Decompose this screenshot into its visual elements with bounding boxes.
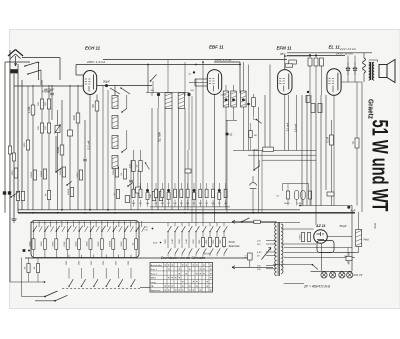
svg-text:Sperrkreis: Sperrkreis xyxy=(151,289,162,292)
AF subnetwork resistor 1 xyxy=(286,191,289,199)
svg-text:1500: 1500 xyxy=(24,142,26,148)
pushbutton column 5 xyxy=(78,221,80,226)
mains line bottom xyxy=(232,266,273,268)
AF subnetwork oval 2 xyxy=(301,191,305,200)
resistor 1500 left xyxy=(26,140,29,150)
svg-text:1M: 1M xyxy=(254,135,257,137)
svg-text:×: × xyxy=(192,288,194,292)
svg-text:50000: 50000 xyxy=(284,203,289,205)
capacitor 8uF xyxy=(347,206,350,209)
coupling caps left of EL xyxy=(306,96,310,103)
pushbutton column 1 xyxy=(33,221,35,226)
junction dots xyxy=(32,212,34,214)
power transformer secondary xyxy=(281,224,283,273)
svg-text:EBF 11: EBF 11 xyxy=(209,45,224,50)
wire right col x311 xyxy=(310,95,312,206)
pushbutton column 4 xyxy=(67,221,69,226)
svg-text:4700pF: 4700pF xyxy=(42,90,51,94)
svg-text:4 kΩ: 4 kΩ xyxy=(373,223,377,228)
svg-text:0,9 mA: 0,9 mA xyxy=(294,124,298,132)
mains line top xyxy=(232,221,277,223)
resistor input 3b xyxy=(47,123,50,133)
dial lamps xyxy=(321,272,327,278)
svg-text:0,1: 0,1 xyxy=(155,203,158,205)
antenna coupling box 700 xyxy=(10,69,18,73)
capacitor 0.1uF mains xyxy=(248,253,253,260)
pushbutton column 6 xyxy=(90,221,92,226)
svg-text:1,0M: 1,0M xyxy=(27,106,31,113)
svg-text:0,1M: 0,1M xyxy=(172,239,174,244)
svg-text:Lang: Lang xyxy=(151,282,157,284)
svg-text:250pF: 250pF xyxy=(221,95,228,97)
wire EFM cathode xyxy=(284,95,286,151)
wire ECH cathode xyxy=(89,95,91,210)
fuse xyxy=(254,220,260,223)
svg-text:ZF = 468/472 kHz: ZF = 468/472 kHz xyxy=(303,284,331,288)
svg-text:B´mst: B´mst xyxy=(204,253,211,256)
wire collect below unit dashed xyxy=(62,288,140,290)
capacitor dots EBF xyxy=(247,103,250,106)
svg-text:8µF: 8µF xyxy=(351,209,356,213)
pushbutton column 8 xyxy=(112,221,114,226)
svg-text:50: 50 xyxy=(91,104,95,108)
rectifier AZ11 xyxy=(314,230,328,244)
wire ECH anode xyxy=(75,65,77,76)
svg-text:0,1: 0,1 xyxy=(167,203,170,205)
svg-text:25nF: 25nF xyxy=(253,149,259,152)
svg-text:1000: 1000 xyxy=(41,241,43,247)
resistor 0.1M right xyxy=(330,135,334,145)
svg-text:0,1M: 0,1M xyxy=(186,239,188,244)
svg-text:×: × xyxy=(206,284,208,288)
switches below unit xyxy=(68,255,70,259)
left switch low xyxy=(10,196,12,198)
svg-text:×: × xyxy=(185,263,187,267)
AZ11 cathode loop xyxy=(317,241,334,253)
svg-text:10000: 10000 xyxy=(110,240,112,247)
svg-text:×: × xyxy=(164,288,166,292)
svg-text:×: × xyxy=(171,263,173,267)
svg-text:4,2V / 2,4 mA: 4,2V / 2,4 mA xyxy=(340,47,356,51)
wire left rail x22 xyxy=(21,80,23,210)
wire right col x302 xyxy=(301,95,303,206)
switch after ECH xyxy=(110,88,120,94)
component 1M right low xyxy=(327,192,334,196)
switch detector xyxy=(256,119,258,121)
svg-text:10000: 10000 xyxy=(68,188,70,195)
left bottom resistors xyxy=(27,264,30,273)
IF I coil B xyxy=(178,93,184,109)
svg-text:5000: 5000 xyxy=(299,234,301,240)
wire right col x307 xyxy=(306,95,308,206)
svg-text:EL 11: EL 11 xyxy=(329,45,341,50)
switch ECH grid xyxy=(120,87,122,89)
osc switch contacts xyxy=(121,111,123,113)
pushbutton column 7 xyxy=(101,221,103,226)
svg-text:245V; 36 mA: 245V; 36 mA xyxy=(335,51,353,55)
speaker xyxy=(379,65,387,78)
svg-text:×: × xyxy=(168,276,170,280)
wires into EBF left xyxy=(195,78,207,80)
trim capacitor xyxy=(68,130,73,136)
wire grid ECH xyxy=(14,85,84,87)
tube EL11 xyxy=(327,69,341,96)
wire left rail x14 xyxy=(13,74,15,215)
svg-text:5000: 5000 xyxy=(30,241,32,247)
wire IF can right feed xyxy=(184,62,186,93)
wire bus y210 xyxy=(18,209,300,211)
svg-text:5000: 5000 xyxy=(19,193,21,199)
hline y120 detector xyxy=(226,119,237,121)
svg-text:Graetz: Graetz xyxy=(367,99,376,119)
wire 240V drop x148 xyxy=(147,65,149,93)
switch TA xyxy=(253,169,255,171)
svg-text:1000: 1000 xyxy=(12,170,14,176)
svg-text:×: × xyxy=(189,267,191,271)
power transformer primary xyxy=(275,223,277,276)
switch bottom long 3 xyxy=(151,287,153,289)
IF I coil A xyxy=(165,93,172,109)
svg-text:50pF: 50pF xyxy=(103,79,110,83)
switch osc low xyxy=(145,162,146,163)
wire left rail x18 xyxy=(17,64,19,213)
resistor 70 right xyxy=(355,138,359,148)
svg-text:100: 100 xyxy=(72,115,76,120)
wire column x265 xyxy=(264,95,266,151)
svg-text:×: × xyxy=(175,288,177,292)
tube EFM11 xyxy=(278,70,292,95)
resistor input 2a xyxy=(40,99,43,109)
switch bottom long 2 xyxy=(35,300,55,302)
wire af line2 xyxy=(261,151,263,213)
svg-text:0,1: 0,1 xyxy=(139,203,142,205)
resistor left col 7 xyxy=(76,113,80,123)
svg-text:5000: 5000 xyxy=(98,241,100,247)
psu rails right xyxy=(284,247,352,249)
resistor 50 below ECH xyxy=(95,101,99,111)
svg-text:0,1: 0,1 xyxy=(218,203,221,205)
svg-text:×: × xyxy=(192,263,194,267)
field coil xyxy=(356,230,362,247)
wire EBF cathode xyxy=(214,94,216,222)
svg-text:10000: 10000 xyxy=(31,171,33,178)
svg-text:×: × xyxy=(182,263,184,267)
mid box 40 xyxy=(125,196,130,203)
wire top line EL11 y55 xyxy=(287,55,345,57)
wire column x270 xyxy=(269,65,271,151)
hbus y82 right xyxy=(341,81,362,83)
svg-text:×: × xyxy=(171,284,173,288)
band switch mid xyxy=(66,184,68,186)
svg-text:5000: 5000 xyxy=(56,146,60,153)
tap arrow xyxy=(262,248,272,260)
svg-text:245V; 1,8 mA: 245V; 1,8 mA xyxy=(214,58,231,62)
switch wave 2 xyxy=(55,171,57,173)
hbus y155 xyxy=(248,154,316,156)
svg-text:51 W und WT: 51 W und WT xyxy=(368,120,393,212)
resistor 5000 mid xyxy=(60,145,64,155)
wire osc left xyxy=(107,90,109,210)
wire EFM top xyxy=(284,56,286,70)
left bottom wires xyxy=(29,213,31,264)
svg-text:×: × xyxy=(171,276,173,280)
wire right col x316 xyxy=(315,104,317,226)
wire bus y222 xyxy=(30,222,300,224)
left bottom terminal marks xyxy=(23,249,26,252)
IF I cap dots xyxy=(157,93,160,96)
IF transformer I xyxy=(151,108,153,210)
left band resistors row A xyxy=(14,168,17,178)
antenna xyxy=(8,50,16,57)
oscillator coil pack xyxy=(112,96,118,109)
svg-text:4×0,74: 4×0,74 xyxy=(353,273,363,277)
svg-text:×: × xyxy=(164,263,166,267)
wire af line xyxy=(258,107,260,213)
capacitor 25nF row xyxy=(263,147,274,151)
svg-text:5000: 5000 xyxy=(77,172,79,178)
svg-text:6,3V: 6,3V xyxy=(257,252,262,254)
pushbutton column 10 xyxy=(135,221,137,226)
resistor 1nF box xyxy=(249,131,252,138)
svg-text:mV: mV xyxy=(145,230,149,232)
wire bus y258 xyxy=(25,257,250,259)
right psu verticals xyxy=(361,82,363,212)
mains switch xyxy=(241,221,243,223)
resistor row under IF xyxy=(132,189,135,198)
wire EL11 cathode xyxy=(333,95,335,205)
wire x203 down xyxy=(202,62,204,223)
svg-text:EFM 11: EFM 11 xyxy=(277,46,293,51)
selector columns right of unit xyxy=(167,223,169,227)
svg-text:1000: 1000 xyxy=(87,241,89,247)
svg-text:×: × xyxy=(178,288,180,292)
wire right col x326 xyxy=(325,95,327,190)
left small boxes x10 xyxy=(8,146,11,154)
transformer taps xyxy=(266,240,276,242)
wire left rail x10 xyxy=(9,50,11,282)
AF subnetwork rail xyxy=(283,183,309,185)
coil pair 2 xyxy=(241,91,247,107)
grid components EL11 xyxy=(314,58,318,66)
pushbutton column 3 xyxy=(55,221,57,226)
svg-text:0,1M: 0,1M xyxy=(297,203,302,205)
power transformer core xyxy=(277,222,279,276)
svg-text:0,1: 0,1 xyxy=(205,203,208,205)
svg-text:×: × xyxy=(175,276,177,280)
svg-text:×: × xyxy=(189,288,191,292)
switch HT dropper xyxy=(150,80,152,82)
svg-text:×: × xyxy=(210,276,212,280)
svg-text:Kurz 2: Kurz 2 xyxy=(151,272,158,275)
svg-text:10000: 10000 xyxy=(41,170,43,177)
svg-text:0,1: 0,1 xyxy=(193,203,196,205)
pushbutton column 2 xyxy=(44,221,46,226)
terminal AE xyxy=(3,191,6,194)
svg-text:0,1: 0,1 xyxy=(180,203,183,205)
components x300-315 y230 xyxy=(301,233,304,242)
resistor 1M input xyxy=(31,105,35,115)
wire chassis bus y213 xyxy=(18,212,355,214)
heater line bottom xyxy=(284,283,304,285)
svg-text:0,1M: 0,1M xyxy=(325,137,329,143)
wire top line right y53 xyxy=(287,52,372,54)
wire IF can feed 2 xyxy=(167,60,169,93)
svg-text:2000: 2000 xyxy=(53,241,55,247)
svg-text:×: × xyxy=(178,276,180,280)
output transformer xyxy=(370,62,372,80)
padder capacitors xyxy=(129,179,132,181)
hbus y150 xyxy=(233,150,316,152)
pushbutton column 9 xyxy=(124,221,126,226)
hbus y160 xyxy=(262,159,316,161)
wire antenna switch xyxy=(25,62,38,66)
resistor input 2b xyxy=(47,99,50,109)
wire main HT bus y64 xyxy=(76,64,240,66)
svg-text:Feld: Feld xyxy=(364,238,370,242)
junction B xyxy=(193,71,195,73)
heater wires lamps xyxy=(321,243,323,271)
pushbutton switch unit frame xyxy=(31,221,139,258)
wire right col x321 xyxy=(320,95,322,206)
collector rail y207 xyxy=(150,206,230,208)
svg-text:×: × xyxy=(203,271,205,275)
tube ECH11 xyxy=(83,71,96,95)
svg-text:AZ 11: AZ 11 xyxy=(315,224,326,228)
AF subnetwork resistor 2 xyxy=(308,191,311,199)
svg-text:×: × xyxy=(168,267,170,271)
svg-text:×: × xyxy=(185,271,187,275)
svg-text:×: × xyxy=(196,263,198,267)
AZ11 wires xyxy=(282,228,314,230)
resistor 50 dot xyxy=(225,132,228,135)
svg-text:22 mA: 22 mA xyxy=(286,123,290,132)
svg-text:×: × xyxy=(199,271,201,275)
resistor M01 right xyxy=(346,256,352,260)
wire x103 xyxy=(102,86,104,210)
wire x192 down xyxy=(191,96,193,223)
volume pot xyxy=(252,98,256,107)
resistor 0.3M xyxy=(185,169,191,173)
svg-text:Mittel: Mittel xyxy=(151,277,157,280)
wire HT bus y59 xyxy=(103,59,287,61)
svg-text:240V; 1,3 mA: 240V; 1,3 mA xyxy=(86,60,105,64)
svg-text:5000: 5000 xyxy=(121,241,123,247)
svg-text:×: × xyxy=(182,288,184,292)
svg-text:ECH 11: ECH 11 xyxy=(85,46,101,51)
svg-text:×: × xyxy=(196,271,198,275)
svg-text:Drucktasten von der Stirnseite: Drucktasten von der Stirnseite xyxy=(161,256,205,260)
tone caps right of EL xyxy=(346,62,350,75)
svg-text:50 W: 50 W xyxy=(229,240,236,244)
switch bottom long xyxy=(44,296,46,298)
wire anode line EBF xyxy=(214,61,240,63)
pushbutton function table xyxy=(150,263,213,293)
choke coil right xyxy=(363,58,366,73)
resistor 150 osc xyxy=(132,161,135,172)
svg-text:Spartrafo: Spartrafo xyxy=(229,244,241,248)
wire x196 down xyxy=(195,79,197,223)
svg-text:×: × xyxy=(168,288,170,292)
wire left rail x5 xyxy=(4,62,6,213)
resistor input 3a xyxy=(40,123,43,133)
trimmer capacitor xyxy=(55,126,60,133)
EFM anode parts xyxy=(289,60,297,64)
svg-text:×: × xyxy=(192,280,194,284)
ground left xyxy=(13,215,15,220)
capacitor osc xyxy=(83,158,86,160)
svg-text:Ausschalter: Ausschalter xyxy=(151,264,163,267)
psu bottom wire xyxy=(273,264,312,266)
left band resistors row B xyxy=(16,192,19,201)
svg-text:×: × xyxy=(210,288,212,292)
svg-text:50µF: 50µF xyxy=(340,224,347,228)
svg-text:×: × xyxy=(199,288,201,292)
speaker wires xyxy=(377,60,379,62)
AF subnetwork oval 1 xyxy=(294,191,298,200)
psu bottom switch xyxy=(312,264,314,266)
svg-text:30000: 30000 xyxy=(60,168,62,175)
resistor 50 osc xyxy=(139,161,142,172)
capacitor below switch xyxy=(250,183,257,189)
svg-text:Kurz 1: Kurz 1 xyxy=(151,268,158,271)
tube EBF11 xyxy=(207,70,221,95)
svg-text:0,1M: 0,1M xyxy=(64,241,66,246)
IF transformer II coils xyxy=(223,91,229,107)
svg-text:1M: 1M xyxy=(344,256,347,258)
hbus y205 right xyxy=(300,205,352,207)
svg-text:5000: 5000 xyxy=(75,241,77,247)
svg-text:×: × xyxy=(196,284,198,288)
